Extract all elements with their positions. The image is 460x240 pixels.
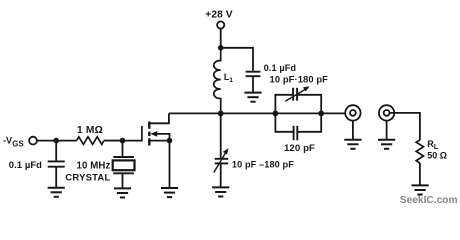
crystal Y1 lead [122,141,124,157]
variable capacitor C4 plates [292,88,294,101]
node crystal junction [120,138,126,144]
wire crystal to ground [122,173,124,188]
svg-text:+28 V: +28 V [205,9,233,20]
wire top branch left [275,95,292,114]
transistor Q1 body line [156,134,170,141]
svg-text:50 Ω: 50 Ω [427,151,447,161]
svg-text:120 pF: 120 pF [284,143,315,154]
variable capacitor C3 lead from rail [220,113,222,157]
wire bottom branch right [297,113,321,131]
wire J2 center to RL [390,113,420,140]
wire bottom branch left [275,113,293,131]
crystal Y1 top plate [113,156,134,158]
svg-text:10 MHz: 10 MHz [77,161,111,172]
transistor Q1 channel segments [148,122,150,146]
svg-text:0.1 µFd: 0.1 µFd [264,63,297,73]
transistor Q1 source lead [150,140,169,142]
svg-text:-VGS: -VGS [3,135,24,148]
transistor Q1 MOSFET gate lead [104,126,142,141]
wire source to ground [169,141,171,188]
node top rail junction [218,45,224,51]
wire C1 to ground [55,167,57,188]
svg-text:RL: RL [427,139,439,151]
wire top branch right [298,95,321,114]
ground G2 under crystal [114,188,131,197]
svg-text:L1: L1 [224,72,233,84]
variable capacitor C3 plates [215,158,229,160]
capacitor C1 plates [48,160,65,162]
variable capacitor C3 arrow [214,152,227,173]
supply terminal +28 V [217,21,224,28]
ground G6 under J1 [344,140,361,149]
node input junction [53,138,59,144]
inductor L1 [214,48,221,114]
ground G5 under C2 [244,93,261,102]
wire supply down to node [220,29,222,48]
node parallel network left [273,111,279,117]
wire J1 to ground [352,121,354,140]
node parallel network right [318,111,324,117]
svg-text:SeekIC.com: SeekIC.com [400,195,458,206]
connector J1 output jack [345,105,360,120]
svg-text:10 pF –180 pF: 10 pF –180 pF [232,159,294,169]
transistor Q1 body arrow [150,131,157,137]
resistor R1 1 Mohm zigzag [77,137,104,145]
wire RL to ground [419,163,421,185]
crystal Y1 body [113,160,135,170]
wire resistor to gate [104,140,123,142]
crystal Y1 bottom plate [113,172,134,174]
transistor Q1 drain lead [150,113,169,123]
input terminal -VGS [29,137,37,145]
wire J2 to ground [386,121,388,140]
svg-text:1 MΩ: 1 MΩ [77,125,103,136]
variable capacitor C4 arrow [285,89,306,102]
ground G3 under source [161,188,178,197]
wire top rail right [221,48,253,71]
wire main rail [169,112,345,114]
ground G7 under J2 [378,140,395,149]
wire C2 to ground [252,76,254,92]
wire input to resistor [37,140,77,142]
capacitor C1 0.1 uFd input, lead [55,141,57,161]
node main rail / L1 bottom junction [218,111,224,117]
ground G1 under C1 [48,188,65,197]
svg-text:0.1 µFd: 0.1 µFd [9,159,42,170]
wire C3 to ground [220,163,222,187]
svg-text:10 pF·180 pF: 10 pF·180 pF [270,73,329,84]
capacitor C5 120 pF plates [293,126,295,140]
resistor RL zigzag [416,140,423,163]
svg-text:CRYSTAL: CRYSTAL [65,172,110,183]
ground G8 under RL [412,185,429,194]
capacitor C2 0.1 uFd bypass plates [246,71,261,73]
node source junction [167,138,173,144]
ground G4 under C3 [212,187,229,196]
connector J2 load jack [379,105,394,120]
